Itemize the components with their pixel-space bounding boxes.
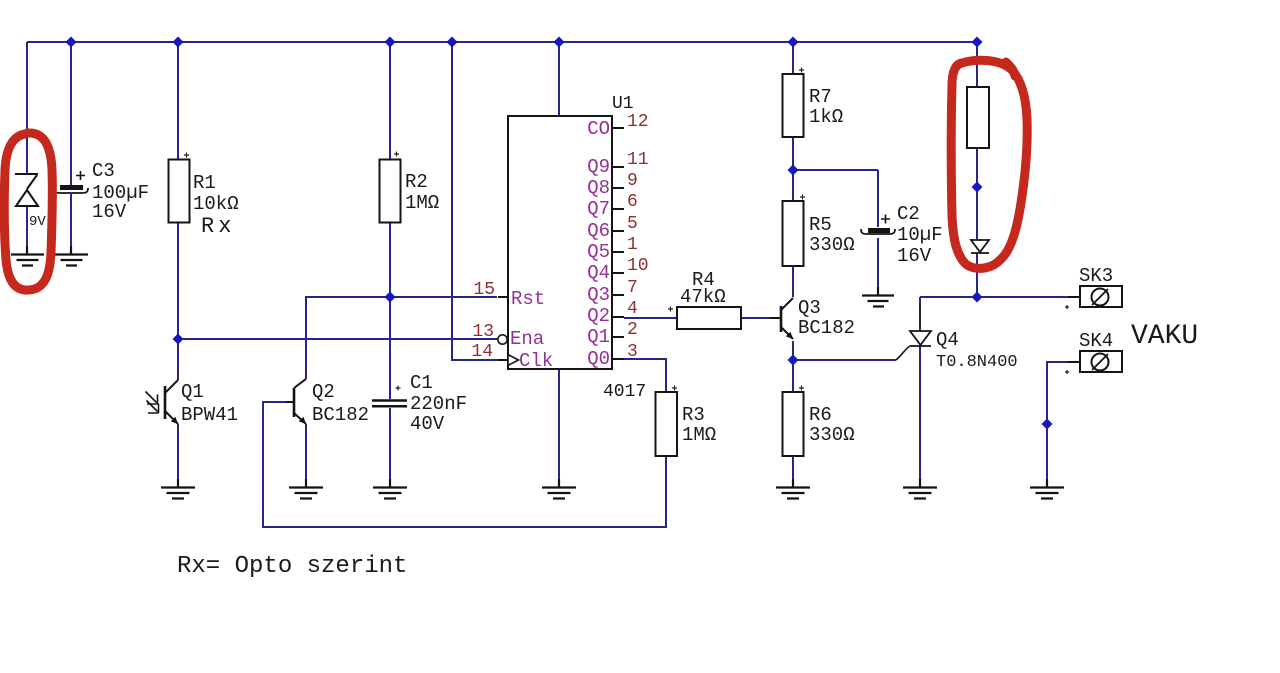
svg-text:Q2: Q2 [312,381,335,403]
svg-text:6: 6 [627,192,638,212]
svg-text:Rx= Opto szerint: Rx= Opto szerint [177,553,407,580]
svg-text:Q7: Q7 [587,198,610,220]
svg-text:R1: R1 [193,172,216,194]
svg-text:330Ω: 330Ω [809,424,855,446]
svg-text:3: 3 [627,342,638,362]
svg-text:330Ω: 330Ω [809,234,855,256]
svg-text:R3: R3 [682,404,705,426]
svg-text:7: 7 [627,278,638,298]
svg-text:Q5: Q5 [587,241,610,263]
svg-text:47kΩ: 47kΩ [680,286,726,308]
svg-text:9V: 9V [29,214,46,230]
svg-text:10: 10 [627,256,649,276]
svg-text:2: 2 [627,320,638,340]
svg-text:Q0: Q0 [587,348,610,370]
svg-text:Q4: Q4 [936,329,959,351]
svg-text:12: 12 [627,112,649,132]
svg-text:Q6: Q6 [587,220,610,242]
svg-text:SK3: SK3 [1079,265,1113,287]
svg-text:220nF: 220nF [410,393,467,415]
svg-text:14: 14 [471,342,493,362]
svg-text:1: 1 [627,235,638,255]
svg-text:Q4: Q4 [587,262,610,284]
svg-text:VAKU: VAKU [1131,321,1198,352]
svg-text:Q8: Q8 [587,177,610,199]
svg-text:Q9: Q9 [587,156,610,178]
svg-text:T0.8N400: T0.8N400 [936,353,1018,372]
svg-text:4: 4 [627,299,638,319]
svg-text:16V: 16V [92,201,127,223]
svg-text:R2: R2 [405,171,428,193]
svg-text:BPW41: BPW41 [181,404,238,426]
svg-text:Q2: Q2 [587,305,610,327]
svg-text:C2: C2 [897,203,920,225]
svg-text:1MΩ: 1MΩ [682,424,716,446]
svg-text:C1: C1 [410,372,433,394]
svg-text:Q1: Q1 [181,381,204,403]
svg-text:Q3: Q3 [798,297,821,319]
svg-text:13: 13 [472,322,494,342]
svg-text:4017: 4017 [603,382,646,402]
svg-text:Ena: Ena [510,328,544,350]
svg-text:40V: 40V [410,413,445,435]
svg-text:C3: C3 [92,160,115,182]
svg-text:R7: R7 [809,86,832,108]
svg-text:Q1: Q1 [587,326,610,348]
svg-text:1kΩ: 1kΩ [809,106,843,128]
svg-text:15: 15 [473,280,495,300]
svg-text:1MΩ: 1MΩ [405,192,439,214]
svg-text:CO: CO [587,118,610,140]
svg-text:Q3: Q3 [587,284,610,306]
svg-text:R5: R5 [809,214,832,236]
svg-text:10µF: 10µF [897,224,943,246]
svg-text:Rx: Rx [201,214,235,239]
svg-text:R6: R6 [809,404,832,426]
svg-text:BC182: BC182 [312,404,369,426]
svg-text:BC182: BC182 [798,317,855,339]
svg-text:Clk: Clk [519,350,553,372]
svg-text:11: 11 [627,150,649,170]
svg-text:SK4: SK4 [1079,330,1113,352]
svg-text:U1: U1 [612,94,634,114]
svg-text:5: 5 [627,214,638,234]
svg-text:Rst: Rst [511,288,545,310]
svg-text:10kΩ: 10kΩ [193,193,239,215]
svg-text:9: 9 [627,171,638,191]
svg-text:16V: 16V [897,245,932,267]
